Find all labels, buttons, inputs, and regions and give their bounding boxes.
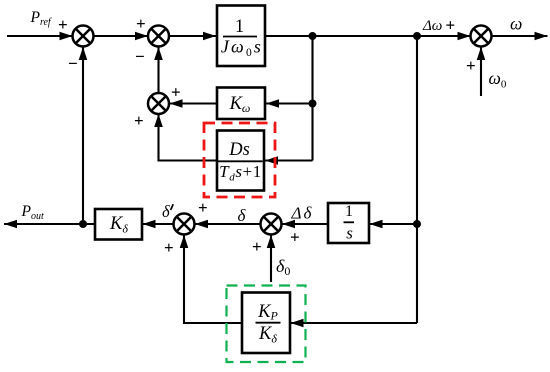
svg-text:+: +: [164, 238, 174, 257]
svg-text:+: +: [252, 237, 262, 256]
svg-text:−: −: [135, 47, 145, 66]
svg-text:+: +: [446, 16, 456, 35]
svg-text:−: −: [68, 54, 78, 73]
svg-text:ω: ω: [510, 14, 522, 34]
svg-text:δ: δ: [162, 202, 170, 221]
svg-text:δ0: δ0: [276, 256, 290, 278]
svg-text:1: 1: [235, 17, 244, 37]
svg-text:Tds+1: Tds+1: [219, 162, 262, 184]
svg-text:s: s: [346, 224, 353, 243]
svg-text:ω0: ω0: [489, 68, 507, 91]
svg-text:Jω0s: Jω0s: [221, 37, 263, 60]
svg-text:+: +: [466, 56, 476, 75]
svg-text:δ: δ: [238, 206, 247, 225]
svg-text:1: 1: [345, 203, 353, 220]
svg-text:+: +: [58, 15, 68, 34]
svg-text:+: +: [198, 198, 208, 217]
svg-text:Pout: Pout: [21, 203, 44, 222]
svg-text:Pref: Pref: [30, 9, 52, 28]
svg-text:+: +: [290, 228, 300, 247]
svg-text:+: +: [134, 111, 144, 130]
svg-text:Ds: Ds: [228, 140, 250, 160]
svg-text:Δω: Δω: [422, 18, 442, 34]
svg-text:+: +: [136, 14, 146, 33]
svg-text:Δδ: Δδ: [291, 204, 314, 223]
svg-text:+: +: [171, 83, 181, 102]
